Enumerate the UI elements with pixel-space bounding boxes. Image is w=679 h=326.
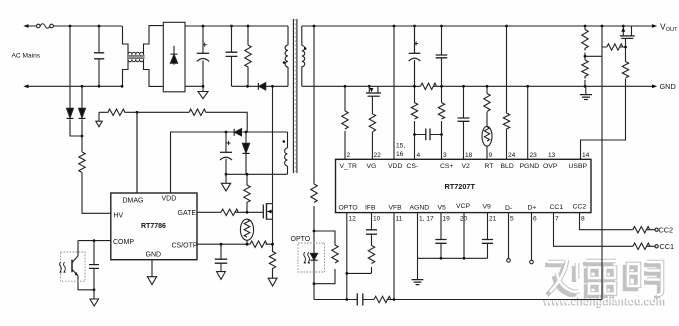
wire COMP bbox=[78, 240, 111, 242]
junction dots bbox=[69, 25, 72, 28]
svg-text:22: 22 bbox=[374, 152, 382, 159]
svg-text:5: 5 bbox=[510, 216, 514, 223]
svg-text:2: 2 bbox=[347, 152, 351, 159]
wire VG column bbox=[371, 96, 373, 159]
svg-text:RT7786: RT7786 bbox=[141, 223, 166, 230]
svg-text:AC Mains: AC Mains bbox=[12, 52, 41, 59]
watermark logo chongdiantou bbox=[545, 263, 659, 298]
capacitor C4 on CS/OTP bbox=[220, 244, 222, 271]
wire AC line N bbox=[27, 85, 123, 87]
wire AC line L bbox=[27, 25, 122, 27]
ground under C3 bbox=[221, 174, 230, 191]
terminal circle D- bbox=[507, 259, 511, 263]
wire opto feed column bbox=[313, 26, 315, 300]
ground under C4 bbox=[217, 272, 226, 280]
thermistor NTC1 bbox=[240, 219, 253, 240]
terminal arrow VOUT bbox=[652, 24, 657, 28]
svg-text:CC2: CC2 bbox=[659, 226, 674, 235]
fuse F1 bbox=[37, 24, 41, 28]
wire V_TR column bbox=[344, 86, 346, 159]
transformer T1 primary bbox=[285, 45, 288, 67]
resistor R10 CS- bbox=[411, 103, 417, 119]
resistor R5 source sense bbox=[269, 244, 275, 278]
wire OPTO-IFB link bbox=[347, 272, 372, 274]
wire D+ stub bbox=[531, 213, 533, 261]
svg-text:14: 14 bbox=[582, 152, 590, 159]
capacitor C3 VDD bbox=[225, 132, 227, 174]
svg-text:20: 20 bbox=[460, 216, 468, 223]
svg-text:OVP: OVP bbox=[543, 163, 558, 170]
wire OPTO pin column bbox=[346, 213, 348, 300]
wire VDD column bbox=[393, 26, 395, 159]
wire earth stub AGND bbox=[417, 258, 419, 279]
wire divider tap bbox=[585, 55, 602, 57]
mosfet Q1 bbox=[262, 205, 264, 219]
wire feedback sense column bbox=[601, 26, 603, 300]
capacitor C5 COMP bbox=[93, 241, 95, 290]
diode D1 bbox=[67, 108, 74, 117]
svg-text:9: 9 bbox=[489, 152, 493, 159]
svg-text:21: 21 bbox=[489, 216, 497, 223]
terminal circle D+ bbox=[530, 260, 534, 264]
diode D3 snubber bbox=[257, 83, 259, 90]
svg-text:RT: RT bbox=[485, 163, 494, 170]
wire HV startup to pin bbox=[82, 173, 111, 214]
wire V9 column bbox=[487, 213, 489, 259]
phase dot aux bbox=[283, 140, 286, 143]
svg-text:12: 12 bbox=[349, 216, 357, 223]
svg-text:10: 10 bbox=[373, 216, 381, 223]
svg-text:19: 19 bbox=[443, 216, 451, 223]
wire CC2 lead bbox=[580, 213, 655, 230]
ground under U1 GND bbox=[147, 277, 156, 285]
wire opto parallel resistor top bbox=[314, 231, 335, 245]
mosfet Q2 pass bbox=[623, 26, 631, 36]
wire VCP column bbox=[463, 213, 465, 259]
resistor R-HV bbox=[79, 152, 85, 172]
wire X-cap column bbox=[98, 26, 100, 86]
svg-text:16: 16 bbox=[396, 151, 404, 158]
svg-text:HV: HV bbox=[114, 213, 124, 220]
svg-text:V2: V2 bbox=[462, 163, 471, 170]
wire DC+ rail bbox=[185, 25, 288, 27]
capacitor C13 V9 bbox=[482, 240, 493, 244]
resistor R13 RT bbox=[484, 94, 490, 112]
resistor R14 BLD bbox=[503, 113, 509, 129]
wire V5 column bbox=[440, 213, 442, 259]
wire PGND column bbox=[527, 86, 529, 159]
transformer T1 core bbox=[293, 19, 297, 173]
svg-text:V9: V9 bbox=[483, 204, 492, 211]
wire AGND column bbox=[417, 213, 419, 259]
svg-text:CC1: CC1 bbox=[660, 242, 675, 251]
capacitor C12 V5 bbox=[435, 240, 446, 244]
resistor R1 snubber bbox=[245, 26, 251, 86]
wire GND rail bbox=[302, 85, 655, 87]
wire pass gate branch bbox=[602, 46, 626, 48]
svg-text:COMP: COMP bbox=[113, 239, 134, 246]
svg-text:GND: GND bbox=[146, 251, 162, 258]
diode D4 aux rectifier bbox=[233, 129, 235, 136]
wire BLD column bbox=[506, 26, 508, 159]
thermistor NTC2 RT bbox=[482, 126, 492, 146]
wire gate drive bbox=[197, 211, 263, 213]
common-mode choke L1 core bbox=[127, 56, 145, 58]
capacitor C2 snubber bbox=[231, 26, 233, 86]
wire CS filter links bbox=[415, 134, 442, 136]
resistor R9 VG bbox=[369, 114, 375, 132]
svg-text:IFB: IFB bbox=[365, 205, 376, 212]
ground stub DMAG divider bbox=[96, 112, 102, 126]
svg-text:V_TR: V_TR bbox=[340, 163, 357, 170]
svg-text:23: 23 bbox=[530, 152, 538, 159]
resistor R4 CS filter bbox=[250, 241, 267, 247]
svg-text:www.chongdiantou.com: www.chongdiantou.com bbox=[544, 295, 667, 307]
pin DMAG stub bbox=[136, 112, 138, 193]
svg-text:15,: 15, bbox=[396, 143, 405, 150]
wire analog ground bus bbox=[418, 257, 488, 259]
wire IFB column bbox=[371, 213, 373, 274]
wire choke output bottom bbox=[144, 59, 164, 86]
wire aux winding leads bbox=[287, 132, 289, 174]
wire DMAG junction drop bbox=[136, 112, 138, 193]
terminal arrow GND bbox=[652, 84, 657, 88]
svg-text:VCP: VCP bbox=[456, 203, 470, 210]
resistor R24 USBP bbox=[622, 62, 628, 78]
wire earth stub output bbox=[585, 86, 587, 94]
wire RT column bbox=[486, 86, 488, 159]
capacitor CX1 bbox=[94, 53, 104, 59]
svg-text:USBP: USBP bbox=[569, 163, 588, 170]
resistor R18 opto feed bbox=[311, 184, 317, 202]
capacitor C8 CS filter bbox=[426, 129, 430, 141]
ground under R5 bbox=[268, 278, 277, 286]
resistor R19 opto parallel bbox=[332, 245, 338, 263]
wire choke input top bbox=[123, 26, 129, 55]
resistor R7 DMAG series bbox=[137, 109, 247, 132]
phase dot secondary bbox=[304, 47, 307, 50]
svg-text:BLD: BLD bbox=[501, 163, 514, 170]
opto LED dashed box bbox=[298, 243, 325, 272]
terminal arrow AC N bbox=[23, 84, 28, 88]
svg-text:VDD: VDD bbox=[388, 163, 402, 170]
terminal arrow AC L bbox=[23, 24, 28, 28]
earth ground AGND bbox=[412, 280, 424, 285]
resistor R3 gate series bbox=[221, 209, 238, 215]
resistor R15 divider top bbox=[582, 30, 588, 51]
wire VFB column bbox=[393, 213, 395, 300]
wire opto parallel resistor bottom bbox=[314, 269, 335, 284]
depletion fet Q3 VG bbox=[369, 86, 378, 92]
wire HV diode branch right bbox=[81, 86, 83, 152]
wire bridge negative bbox=[185, 85, 203, 87]
resistor R8 V_TR bbox=[342, 111, 348, 129]
wire CS+ column bbox=[441, 26, 443, 159]
transformer T1 aux winding bbox=[285, 148, 288, 166]
svg-text:CS+: CS+ bbox=[440, 163, 453, 170]
resistor R2 gate pullup bbox=[244, 174, 250, 212]
wire VDD aux line bbox=[171, 132, 288, 193]
svg-text:24: 24 bbox=[508, 152, 516, 159]
svg-text:GND: GND bbox=[660, 82, 676, 91]
resistor R17 gate bbox=[607, 44, 623, 50]
svg-text:VFB: VFB bbox=[389, 205, 403, 212]
wire USBP link bbox=[581, 47, 626, 159]
resistor R22 CC1 bbox=[633, 243, 650, 249]
svg-text:D+: D+ bbox=[528, 205, 537, 212]
wire output divider column bbox=[584, 26, 586, 86]
capacitor C7 VBUS bbox=[436, 55, 448, 58]
svg-text:11: 11 bbox=[396, 216, 403, 223]
resistor R6 DMAG upper bbox=[99, 109, 137, 115]
svg-text:D-: D- bbox=[505, 205, 512, 212]
terminal circle CC2 bbox=[655, 228, 658, 231]
transformer T1 secondary bbox=[302, 46, 305, 67]
diode D5 aux clamp bbox=[245, 132, 247, 174]
wire D- stub bbox=[508, 213, 510, 259]
wire CC1 lead bbox=[554, 213, 655, 247]
svg-text:CS/OTP: CS/OTP bbox=[172, 242, 198, 249]
wire primary bottom lead bbox=[287, 26, 289, 86]
svg-text:OPTO: OPTO bbox=[291, 236, 311, 243]
ground under C1 bbox=[198, 86, 208, 98]
svg-text:V5: V5 bbox=[438, 205, 447, 212]
svg-text:4: 4 bbox=[417, 152, 421, 159]
resistor R21 IFB bbox=[368, 246, 374, 264]
wire aux return rail bbox=[226, 173, 288, 175]
resistor R11 CS+ bbox=[438, 103, 444, 119]
wire CS-OTP bbox=[197, 243, 273, 245]
wire switch node vertical bbox=[272, 86, 274, 203]
common-mode choke L1 bottom coil bbox=[128, 59, 144, 62]
svg-text:GATE: GATE bbox=[178, 210, 197, 217]
wire choke input bottom bbox=[123, 59, 129, 86]
capacitor C1 bulk bbox=[202, 26, 204, 86]
bridge rectifier BD1 bbox=[163, 22, 185, 92]
resistor R20 feedback bbox=[374, 296, 391, 302]
svg-text:7: 7 bbox=[555, 216, 559, 223]
wire choke output top bbox=[144, 26, 164, 55]
resistor R23 CC2 bbox=[633, 227, 650, 233]
capacitor C10 feedback bbox=[357, 293, 363, 305]
earth ground output bbox=[580, 95, 592, 100]
common-mode choke L1 top coil bbox=[128, 52, 144, 55]
wire opto emitter to ground bbox=[78, 277, 94, 290]
svg-text:1, 17: 1, 17 bbox=[419, 216, 434, 223]
IC U1 RT7786 bbox=[111, 193, 197, 260]
wire output VBUS rail bbox=[302, 25, 655, 27]
pin GND stub U1 bbox=[151, 260, 153, 277]
svg-text:VG: VG bbox=[367, 163, 377, 170]
diode D2 bbox=[79, 108, 86, 117]
phase dot primary bbox=[283, 61, 286, 64]
capacitor C6 VDD2 bbox=[414, 26, 416, 86]
resistor R12 shunt bbox=[421, 83, 437, 89]
resistor R16 divider bottom bbox=[582, 60, 588, 79]
svg-text:8: 8 bbox=[581, 216, 585, 223]
opto LED D6 bbox=[310, 253, 317, 259]
wire V2 column bbox=[463, 86, 465, 159]
svg-text:DMAG: DMAG bbox=[123, 198, 144, 205]
svg-text:13: 13 bbox=[548, 152, 556, 159]
capacitor C9 V2 bbox=[458, 118, 470, 121]
wire feedback bottom rail bbox=[314, 299, 602, 301]
svg-text:18: 18 bbox=[465, 152, 473, 159]
svg-text:VDD: VDD bbox=[162, 196, 177, 203]
wire snubber bottom bbox=[232, 85, 289, 87]
svg-text:CC2: CC2 bbox=[573, 204, 587, 211]
terminal circle CC1 bbox=[655, 245, 658, 248]
svg-text:CC1: CC1 bbox=[550, 204, 564, 211]
svg-text:3: 3 bbox=[443, 152, 447, 159]
opto-transistor U3A dashed box bbox=[61, 252, 85, 281]
wire secondary top lead bbox=[301, 26, 303, 86]
svg-text:OPTO: OPTO bbox=[339, 205, 358, 212]
svg-text:6: 6 bbox=[533, 216, 537, 223]
wire HV diode branch left bbox=[70, 26, 82, 136]
svg-text:AGND: AGND bbox=[410, 205, 430, 212]
svg-text:PGND: PGND bbox=[520, 163, 540, 170]
IC U2 RT7207T bbox=[336, 159, 592, 212]
svg-text:VOUT: VOUT bbox=[660, 22, 678, 33]
capacitor C11 IFB bbox=[366, 230, 377, 234]
ground under C5 bbox=[90, 290, 99, 306]
wire CS- column bbox=[414, 26, 416, 159]
opto-transistor U3A bbox=[71, 260, 73, 273]
svg-text:CS-: CS- bbox=[407, 163, 419, 170]
svg-text:RT7207T: RT7207T bbox=[445, 182, 476, 191]
